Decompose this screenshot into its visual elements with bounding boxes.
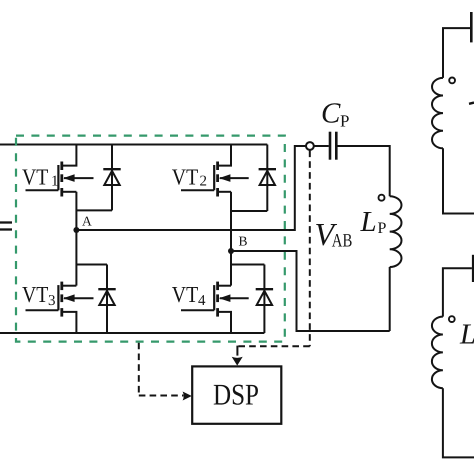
capacitor CP plates [330,132,336,160]
svg-text:2: 2 [200,173,208,189]
wire pickup1 top [443,28,470,78]
svg-text:A: A [82,214,92,229]
wire LP bottom [389,267,391,331]
secondary pickup 1 (top right) [432,12,474,214]
channel ticks VT4 [216,282,219,317]
secondary pickup 2 (bottom right) [432,255,474,458]
DC source = symbol [0,223,12,230]
svg-text:AB: AB [332,230,353,251]
node A junction dot [73,227,79,233]
wire pickup1 bottom [443,148,474,213]
wire node B leg to D4 cathode [231,264,264,266]
label VT3 [22,282,56,309]
wire drain lead VT4 [218,285,231,287]
wire node A to output terminal [76,146,306,230]
wire source lead VT2 [218,191,231,193]
body arrow VT2 [220,177,249,179]
wire gate lead VT3 [26,309,59,311]
diode D2 (VT2 body diode) [259,145,276,212]
output terminal circle [306,142,314,150]
wire pickup2 bottom [443,388,474,457]
label VAB [315,216,353,252]
wire top DC rail [0,144,267,146]
wire gate lead VT1 [26,189,59,191]
wire drain lead VT2 [218,145,231,166]
gate plate VT4 [213,285,215,310]
channel ticks VT2 [216,162,219,197]
diode D4 (VT4 body diode) [256,265,273,334]
body arrow VT3 [64,297,94,299]
label VT1 [22,165,59,190]
pickup1 polarity dot [449,78,455,84]
label VT4 [172,282,206,309]
wire terminal to capacitor CP [314,145,329,147]
channel ticks VT1 [60,162,63,197]
svg-text:VT: VT [172,282,198,307]
svg-text:VT: VT [22,165,48,190]
wire source lead VT1 [62,191,77,193]
transistor VT2 [181,145,249,197]
diode D1 (VT1 body diode) [103,145,120,211]
transistor VT1 [26,145,94,197]
pickup2 polarity dot [449,316,455,322]
wire dashed stub above DSP arrow [236,346,238,356]
green dashed converter box [16,136,285,342]
wire drain lead VT3 [62,285,77,287]
svg-text:L: L [459,318,474,350]
VAB dashed sense line [237,151,309,347]
svg-text:P: P [378,220,387,237]
label CP [321,97,349,130]
svg-text:1: 1 [51,173,59,189]
wire left leg vertical (VT1 source to VT3 drain through node A) [75,192,77,286]
wire CP to LP top [338,146,390,196]
label fragment pickup1 [469,103,474,104]
wire bottom DC rail [0,332,264,334]
gate plate VT3 [57,285,59,310]
channel ticks VT3 [60,282,63,317]
gate plate VT2 [213,165,215,190]
svg-text:3: 3 [48,293,56,309]
wire VT2 source to D2 anode [231,210,267,212]
body arrow VT1 [64,177,94,179]
wire drain lead VT1 [62,145,77,166]
wire source lead VT4 [218,312,231,333]
inductor pickup1 coil [432,78,443,148]
capacitor pickup2 plate [472,255,474,282]
arrowhead into DSP top [232,357,243,366]
svg-text:VT: VT [22,282,48,307]
svg-text:4: 4 [198,293,206,309]
svg-text:C: C [321,97,341,129]
wire source lead VT3 [62,312,77,333]
arrowhead into DSP left [183,392,192,401]
body arrow VT4 [220,297,249,299]
inductor LP coil [390,196,402,267]
svg-text:B: B [239,234,248,249]
wire VT1 source to D1 anode [76,209,112,211]
label VT2 [172,165,207,190]
svg-text:DSP: DSP [213,379,259,412]
wire right leg vertical (VT2 source to VT4 drain through node B) [230,192,232,286]
DSP block [192,366,281,423]
label LP [360,206,387,238]
capacitor pickup1 plate [470,12,473,42]
inductor pickup2 coil [432,317,443,389]
wire node A leg to D3 cathode [76,264,107,266]
svg-text:VT: VT [172,165,198,190]
gate drive dashed line to DSP [139,343,184,396]
gate plate VT1 [57,165,59,190]
wire pickup2 top [443,268,472,316]
transistor VT4 [181,282,249,333]
wire gate lead VT2 [181,189,214,191]
wire gate lead VT4 [181,309,214,311]
transistor VT3 [26,282,94,333]
node B junction dot [228,248,234,254]
svg-text:L: L [360,206,377,238]
LP polarity dot [379,195,385,201]
svg-text:P: P [340,112,349,131]
wire node B to LP bottom [231,251,390,331]
diode D3 (VT3 body diode) [98,265,115,334]
